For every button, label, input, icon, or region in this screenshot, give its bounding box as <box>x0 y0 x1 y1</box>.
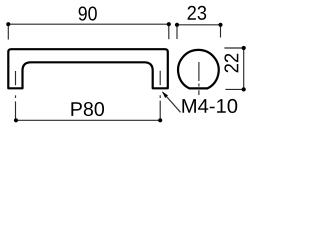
leader line M4-10 <box>163 92 181 112</box>
dimension 90 end dot right <box>167 22 171 26</box>
dimension P80 text <box>71 102 104 116</box>
dimension 23 end dot left <box>175 23 179 27</box>
dimension 90 text <box>79 7 97 21</box>
dimension 23 extension right <box>220 26 222 38</box>
dimension P80 end dot right <box>158 118 162 122</box>
dimension 22 text (rotated) <box>224 54 238 73</box>
dimension P80 line <box>16 119 160 121</box>
handle end view outline (circle with flat bottom) <box>178 50 219 88</box>
dimension 90 line <box>8 23 169 25</box>
dimension 23 line <box>177 24 221 26</box>
dimension 22 line <box>243 48 245 89</box>
dimension P80 end dot left <box>14 118 18 122</box>
centerline right screw hole <box>159 71 161 119</box>
label M4-10 text <box>182 99 237 113</box>
dimension 22 extension top <box>224 47 243 49</box>
dimension 23 extension left <box>176 26 178 39</box>
dimension 90 extension right <box>168 26 170 39</box>
dimension 22 end dot top <box>242 46 246 50</box>
dimension 22 extension bottom <box>225 88 243 90</box>
dimension 23 end dot right <box>218 23 222 27</box>
dimension 90 extension left <box>7 26 9 40</box>
leader arrowhead <box>162 92 168 99</box>
dimension 90 end dot left <box>6 22 10 26</box>
dimension 23 text <box>188 6 207 20</box>
handle side view outline <box>8 49 168 88</box>
dimension 22 end dot bottom <box>242 87 246 91</box>
centerline end view screw hole <box>198 62 200 95</box>
centerline left screw hole <box>15 71 17 119</box>
